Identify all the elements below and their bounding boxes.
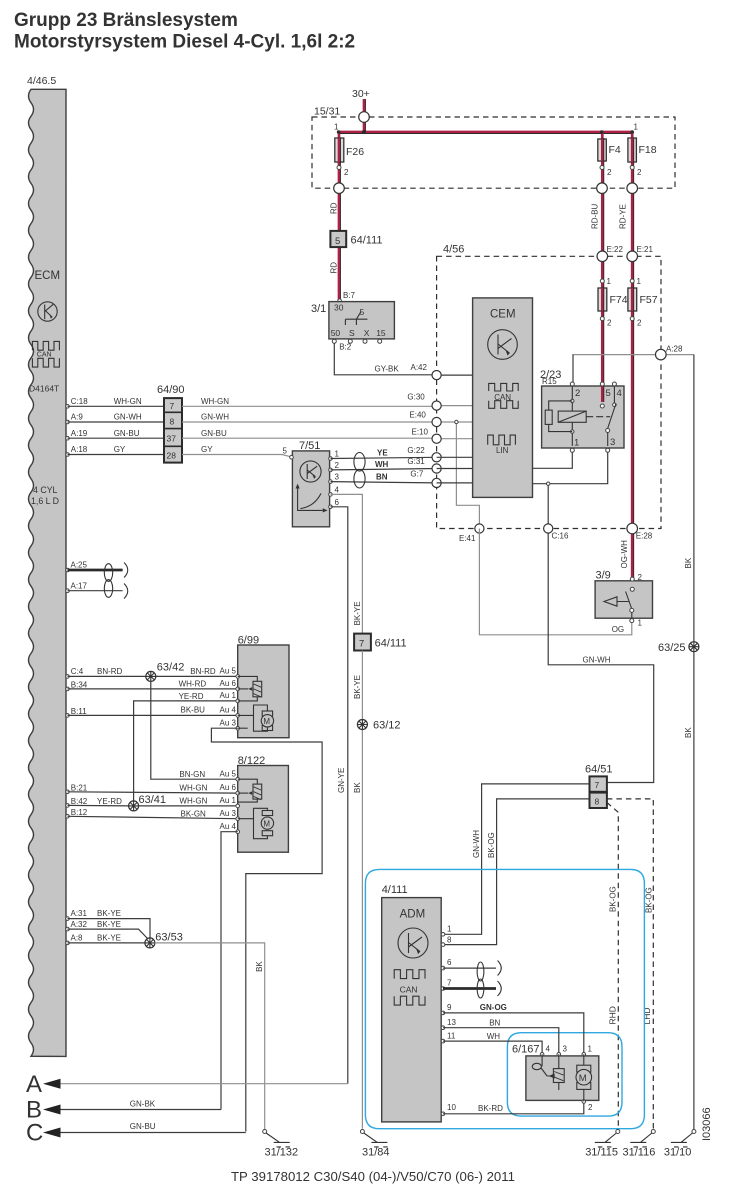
node circle F26 on 15/31 bottom edge xyxy=(334,183,345,194)
ADM transistor symbol xyxy=(398,928,428,958)
ADM CAN symbol xyxy=(394,970,425,1005)
fuse F57 xyxy=(628,288,658,311)
svg-text:C:18: C:18 xyxy=(71,397,88,406)
connector 64/111 pin 7 xyxy=(354,634,407,651)
svg-text:1: 1 xyxy=(638,619,643,628)
svg-text:1: 1 xyxy=(334,123,339,132)
svg-text:1: 1 xyxy=(607,277,612,286)
wire BN pin3 to G:7 xyxy=(331,482,437,483)
svg-text:64/51: 64/51 xyxy=(585,764,613,776)
pin 1 of 3/9 xyxy=(630,619,634,623)
splice 63/25 xyxy=(658,642,699,654)
svg-text:5: 5 xyxy=(283,446,288,455)
wire BK from 63/53 to ground 31/132 xyxy=(155,943,265,1129)
fuse F18 xyxy=(628,138,657,162)
7/51 transistor symbol xyxy=(300,461,321,482)
pin 2 of F4 xyxy=(600,166,604,170)
svg-text:RD: RD xyxy=(330,262,339,274)
6/167 sender symbol xyxy=(532,1054,554,1077)
wire A:17 xyxy=(68,590,123,592)
svg-text:50: 50 xyxy=(331,328,341,338)
svg-text:TP 39178012 C30/S40 (04-)/V50/: TP 39178012 C30/S40 (04-)/V50/C70 (06-) … xyxy=(231,1169,515,1184)
wire BN-GN from splice 63/42 down xyxy=(151,681,238,779)
svg-text:LHD: LHD xyxy=(642,1007,652,1024)
svg-text:BK: BK xyxy=(353,782,362,793)
svg-text:31/115: 31/115 xyxy=(585,1147,618,1159)
svg-text:BK-YE: BK-YE xyxy=(353,675,362,699)
pin 1 of F74 xyxy=(600,279,604,283)
wire relay pin 2 to A:28 xyxy=(572,355,574,382)
svg-text:31/132: 31/132 xyxy=(265,1147,299,1159)
splice 63/41 xyxy=(129,794,166,811)
svg-text:GY-BK: GY-BK xyxy=(375,365,400,374)
svg-text:B:34: B:34 xyxy=(71,681,88,690)
ground 31/10 xyxy=(664,1130,696,1159)
svg-text:2: 2 xyxy=(607,319,612,328)
svg-text:ADM: ADM xyxy=(400,909,426,921)
fuse F26 xyxy=(335,138,364,162)
wire GN-WH to E:40 xyxy=(182,421,473,423)
svg-text:1,6 L D: 1,6 L D xyxy=(31,496,59,506)
svg-text:7: 7 xyxy=(359,639,364,650)
wire 30+ feed xyxy=(363,99,366,132)
ground 31/116 xyxy=(623,1130,656,1159)
wire CEM to relay pin 3 and C:16 branch xyxy=(533,452,608,484)
relay 2/23 body xyxy=(540,369,624,449)
6/99 heater resistor with control arrow xyxy=(238,676,262,700)
svg-text:S: S xyxy=(349,328,355,338)
wire WH-GN xyxy=(68,792,238,793)
wire GN-BU xyxy=(68,437,165,439)
3/9 plunger symbol xyxy=(604,597,629,606)
svg-text:BK: BK xyxy=(255,961,264,972)
svg-text:2: 2 xyxy=(335,461,340,470)
svg-text:15: 15 xyxy=(376,328,386,338)
svg-text:28: 28 xyxy=(167,451,177,461)
wire WH pin11 to 6/167 pin4 xyxy=(443,1041,542,1053)
svg-text:E:10: E:10 xyxy=(412,428,429,437)
wire GN-WH xyxy=(68,421,165,423)
svg-text:WH-GN: WH-GN xyxy=(201,397,229,406)
svg-text:E:40: E:40 xyxy=(409,411,426,420)
svg-text:A:8: A:8 xyxy=(71,934,84,943)
wire GY to 7/51 pin 5 xyxy=(182,455,292,458)
8/122 heater resistor with control arrow xyxy=(238,779,262,802)
node A:28 xyxy=(656,349,667,360)
pin A:32 xyxy=(66,927,70,931)
svg-text:2: 2 xyxy=(575,388,580,399)
svg-text:8: 8 xyxy=(170,417,175,427)
svg-text:B:12: B:12 xyxy=(71,808,88,817)
svg-text:Au 6: Au 6 xyxy=(220,783,237,792)
svg-text:Au 1: Au 1 xyxy=(220,691,237,700)
svg-text:GN-BU: GN-BU xyxy=(201,429,227,438)
svg-text:A:31: A:31 xyxy=(71,909,88,918)
dashed BK-OG LHD variant from 64/51 pin8 xyxy=(607,799,653,1129)
variant frame blue outer box xyxy=(365,869,644,1128)
svg-text:13: 13 xyxy=(447,1018,456,1027)
svg-text:BK-YE: BK-YE xyxy=(97,934,121,943)
wire 6/99 Au3 route to C arrow xyxy=(211,728,322,1131)
pin A:31 xyxy=(66,917,70,921)
wire BK-YE below 64/111 xyxy=(361,651,363,1129)
svg-text:BK-OG: BK-OG xyxy=(645,887,654,913)
node E:41 xyxy=(475,524,484,533)
svg-text:C:4: C:4 xyxy=(71,667,84,676)
svg-text:WH: WH xyxy=(375,460,389,469)
svg-text:64/111: 64/111 xyxy=(375,638,407,650)
svg-text:M: M xyxy=(263,819,270,828)
wire GN-BU to E:10 xyxy=(182,437,473,440)
fuse F74 xyxy=(598,288,628,311)
node E:22 xyxy=(597,251,608,262)
svg-text:31/116: 31/116 xyxy=(623,1147,656,1159)
node circle F18 on 15/31 bottom edge xyxy=(627,183,638,194)
8/122 body xyxy=(238,755,289,852)
svg-text:64/111: 64/111 xyxy=(351,235,383,247)
pin A:9 xyxy=(66,420,70,424)
twisted pair symbol A:25/A:17 xyxy=(104,564,112,598)
relay pins top xyxy=(570,382,574,386)
svg-text:2: 2 xyxy=(637,168,642,177)
svg-text:A:19: A:19 xyxy=(71,429,88,438)
svg-text:BK-YE: BK-YE xyxy=(353,601,362,625)
svg-text:X: X xyxy=(364,328,370,338)
svg-text:WH: WH xyxy=(487,1032,501,1041)
svg-text:GN-BU: GN-BU xyxy=(130,1122,156,1131)
svg-text:B:2: B:2 xyxy=(339,343,352,352)
svg-text:G:31: G:31 xyxy=(407,457,425,466)
svg-text:BK-YE: BK-YE xyxy=(97,909,121,918)
svg-text:1: 1 xyxy=(447,925,452,934)
svg-text:OG: OG xyxy=(612,625,624,634)
fuse box 15/31 dashed boundary xyxy=(312,106,675,189)
ADM pins xyxy=(441,933,445,937)
svg-text:63/41: 63/41 xyxy=(139,794,167,806)
pin 2 of 3/9 xyxy=(630,577,634,581)
junction F18 pin1 xyxy=(630,130,634,134)
wire WH pin2 to G:31 xyxy=(331,469,437,470)
svg-text:Au 3: Au 3 xyxy=(220,809,237,818)
svg-text:BN: BN xyxy=(489,1019,500,1028)
svg-text:30+: 30+ xyxy=(352,88,370,100)
twisted pair symbol ADM xyxy=(477,962,484,998)
svg-text:BN: BN xyxy=(376,473,388,482)
svg-text:BK-OG: BK-OG xyxy=(609,886,618,912)
svg-text:GN-WH: GN-WH xyxy=(114,413,142,422)
pin 2 of F26 xyxy=(337,166,341,170)
svg-text:Grupp 23 Bränslesystem: Grupp 23 Bränslesystem xyxy=(14,10,238,31)
dashed BK-OG RHD variant from 64/51 pin8 xyxy=(607,803,618,1130)
3/9 body xyxy=(595,570,652,619)
wire GN-OG pin9 to 6/167 pin1 xyxy=(443,1013,584,1053)
wire WH-RD xyxy=(68,688,238,690)
svg-text:2: 2 xyxy=(344,168,349,177)
svg-text:Au 4: Au 4 xyxy=(220,706,237,715)
svg-text:1: 1 xyxy=(637,277,642,286)
svg-text:7: 7 xyxy=(447,979,452,988)
pin A:19 xyxy=(66,436,70,440)
svg-text:F74: F74 xyxy=(610,294,628,306)
svg-text:3: 3 xyxy=(335,473,340,482)
splice 63/12 xyxy=(357,720,400,732)
svg-text:2: 2 xyxy=(637,319,642,328)
svg-text:A:25: A:25 xyxy=(71,561,88,570)
wire GN-WH xyxy=(548,533,654,782)
CEM module box xyxy=(473,298,533,498)
svg-text:5: 5 xyxy=(335,236,340,247)
svg-text:BK-BU: BK-BU xyxy=(181,705,206,714)
svg-text:WH-GN: WH-GN xyxy=(179,797,207,806)
continuation arcs ADM pair xyxy=(498,961,502,997)
svg-text:7: 7 xyxy=(170,401,175,411)
svg-text:CEM: CEM xyxy=(490,309,516,321)
svg-text:GN-OG: GN-OG xyxy=(480,1003,507,1012)
svg-text:3: 3 xyxy=(563,1045,568,1054)
svg-text:Au 4: Au 4 xyxy=(220,822,237,831)
svg-text:6: 6 xyxy=(335,498,340,507)
svg-text:GN-WH: GN-WH xyxy=(472,830,481,858)
svg-text:GN-WH: GN-WH xyxy=(583,656,611,665)
wire 64/51 pin8 to ADM pin8 xyxy=(443,799,589,945)
node C:16 xyxy=(544,524,553,533)
svg-text:Au 6: Au 6 xyxy=(220,679,237,688)
continuation arcs xyxy=(124,563,128,599)
svg-text:B:11: B:11 xyxy=(71,707,87,716)
wire BN pin13 to 6/167 pin3 xyxy=(443,1028,559,1053)
svg-text:63/25: 63/25 xyxy=(658,642,686,654)
svg-text:WH-GN: WH-GN xyxy=(179,784,207,793)
svg-text:3/1: 3/1 xyxy=(311,303,326,315)
svg-text:B:42: B:42 xyxy=(71,797,88,806)
svg-text:RD: RD xyxy=(330,202,339,214)
CEM LIN symbol xyxy=(488,435,516,455)
svg-text:63/42: 63/42 xyxy=(157,662,185,674)
svg-text:5: 5 xyxy=(606,388,611,399)
ground 31/132 xyxy=(263,1130,298,1159)
pin B:11 xyxy=(66,714,70,718)
wire YE-RD to splice 63/41 xyxy=(68,804,238,807)
svg-text:YE-RD: YE-RD xyxy=(97,797,122,806)
wire from 7/51 pin 4 (BK-YE) down xyxy=(331,494,363,633)
svg-text:E:22: E:22 xyxy=(607,245,624,254)
wire F26 column (RD) xyxy=(338,132,341,301)
svg-text:3/9: 3/9 xyxy=(596,570,611,582)
svg-text:ECM: ECM xyxy=(35,270,61,282)
relay switch internals xyxy=(600,386,616,446)
ADM module 4/111 xyxy=(382,884,442,1122)
svg-text:37: 37 xyxy=(167,434,177,444)
fuse F4 xyxy=(598,139,621,161)
7/51 characteristic-curve symbol xyxy=(296,484,328,513)
wire F18 column (RD) xyxy=(631,132,634,579)
node circle F4 on 15/31 bottom edge xyxy=(597,183,608,194)
wire YE pin1 to G:22 xyxy=(331,457,437,458)
svg-text:F26: F26 xyxy=(346,146,364,158)
connector 64/90 xyxy=(157,384,185,463)
svg-text:E:21: E:21 xyxy=(637,245,654,254)
node circle on 15/31 top edge xyxy=(359,112,370,123)
svg-text:BK-GN: BK-GN xyxy=(181,810,207,819)
svg-text:1: 1 xyxy=(588,1045,593,1054)
svg-text:BK-YE: BK-YE xyxy=(97,920,121,929)
svg-text:A: A xyxy=(26,1071,42,1098)
pin A:17 xyxy=(66,589,70,593)
relay coil and resistor internals xyxy=(545,386,610,446)
svg-text:RHD: RHD xyxy=(608,1006,618,1024)
ECM transistor symbol xyxy=(38,302,57,321)
svg-text:GN-BK: GN-BK xyxy=(130,1100,156,1109)
wire from 7/51 pin 6 (GN-YE) down xyxy=(331,507,348,1084)
svg-text:4/56: 4/56 xyxy=(443,244,464,256)
svg-text:GY: GY xyxy=(201,445,213,454)
pin B:12 xyxy=(66,815,70,819)
svg-text:9: 9 xyxy=(447,1003,452,1012)
svg-text:2: 2 xyxy=(638,573,643,582)
wire F4 column (RD) xyxy=(601,132,604,406)
variant frame blue inner box 6/167 xyxy=(507,1033,622,1116)
svg-text:RD-YE: RD-YE xyxy=(619,204,628,229)
splice 63/42 xyxy=(146,662,185,682)
svg-text:BK-RD: BK-RD xyxy=(478,1104,503,1113)
svg-text:3: 3 xyxy=(610,437,615,448)
junction 30+ bus xyxy=(362,130,366,134)
svg-text:31/84: 31/84 xyxy=(362,1147,390,1159)
svg-text:I03066: I03066 xyxy=(701,1107,713,1141)
ECM CAN symbol xyxy=(32,341,59,367)
wire YE-RD from splice 63/41 up xyxy=(134,701,238,806)
svg-text:A:17: A:17 xyxy=(71,581,88,590)
svg-text:63/12: 63/12 xyxy=(373,720,401,732)
svg-text:M: M xyxy=(263,717,270,726)
svg-text:CAN: CAN xyxy=(400,985,418,995)
svg-text:G:7: G:7 xyxy=(410,470,423,479)
svg-text:E:41: E:41 xyxy=(459,534,476,543)
3/9 switch internals xyxy=(626,587,635,618)
svg-text:2: 2 xyxy=(607,168,612,177)
wire A:32 to splice xyxy=(68,929,150,941)
svg-text:2: 2 xyxy=(588,1103,593,1112)
svg-text:M: M xyxy=(579,1073,587,1084)
connector 64/111 pin 5 xyxy=(330,231,382,247)
svg-text:GN-BU: GN-BU xyxy=(114,429,140,438)
6/99 pins xyxy=(236,675,240,679)
svg-text:4: 4 xyxy=(335,486,340,495)
wire A:8 to splice xyxy=(68,942,150,944)
svg-text:R15: R15 xyxy=(542,377,557,386)
ADM CAN pair pin 6 xyxy=(443,967,496,969)
svg-text:GN-WH: GN-WH xyxy=(201,413,229,422)
svg-text:C: C xyxy=(26,1120,43,1147)
wire A:28 gray link xyxy=(572,354,694,356)
svg-text:6/167: 6/167 xyxy=(512,1044,540,1056)
pin B:21 xyxy=(66,790,70,794)
pin B:42 xyxy=(66,804,70,808)
connector box 4/56 dashed boundary xyxy=(437,244,661,529)
svg-text:A:32: A:32 xyxy=(71,920,88,929)
node E:21 xyxy=(627,251,638,262)
svg-text:CAN: CAN xyxy=(37,352,52,359)
svg-text:4/46.5: 4/46.5 xyxy=(27,75,56,87)
svg-text:1: 1 xyxy=(574,438,579,449)
svg-text:BK-OG: BK-OG xyxy=(487,832,496,858)
svg-text:YE-RD: YE-RD xyxy=(179,692,204,701)
ADM CAN pair pin 7 thick xyxy=(443,987,496,990)
svg-text:RD-BU: RD-BU xyxy=(591,203,600,229)
svg-text:BK: BK xyxy=(684,557,693,568)
wire 8/122 Au4 to B arrow xyxy=(221,832,238,1110)
svg-text:8: 8 xyxy=(595,797,600,807)
svg-text:BK: BK xyxy=(684,727,693,738)
svg-text:WH-RD: WH-RD xyxy=(179,680,207,689)
svg-text:B:7: B:7 xyxy=(343,291,356,300)
svg-text:30: 30 xyxy=(334,303,344,313)
svg-text:4 CYL: 4 CYL xyxy=(33,485,58,495)
svg-text:Au 1: Au 1 xyxy=(220,796,237,805)
svg-text:A:28: A:28 xyxy=(666,345,683,354)
ground 31/84 xyxy=(360,1130,389,1159)
6/99 body xyxy=(238,635,289,738)
pin A:18 xyxy=(66,453,70,457)
wire A:31 to splice xyxy=(68,919,151,938)
junction F4 pin1 xyxy=(600,130,604,134)
twisted pair symbol on YE/WH/BN xyxy=(354,453,365,489)
svg-text:31/10: 31/10 xyxy=(664,1147,692,1159)
svg-text:4: 4 xyxy=(546,1045,551,1054)
pin B:34 xyxy=(66,687,70,691)
wire WH-GN to G:30 xyxy=(182,405,473,408)
wire BK-BU xyxy=(68,714,238,716)
svg-text:1: 1 xyxy=(634,123,639,132)
8/122 pins xyxy=(236,777,240,781)
svg-text:A:18: A:18 xyxy=(71,445,88,454)
svg-text:OG-WH: OG-WH xyxy=(620,540,629,569)
CEM transistor symbol xyxy=(488,330,518,360)
wire WH-GN xyxy=(68,405,165,407)
svg-text:C:16: C:16 xyxy=(552,532,569,541)
svg-text:63/53: 63/53 xyxy=(155,932,183,944)
pin 2 of F74 xyxy=(600,317,604,321)
svg-text:F57: F57 xyxy=(640,294,658,306)
wire BK continues to ground 31/10 xyxy=(693,651,695,1129)
wire BK-RD pin10 to 6/167 pin2 xyxy=(443,1103,584,1114)
svg-text:E:28: E:28 xyxy=(636,532,653,541)
pin 2 of F57 xyxy=(630,317,634,321)
junction F26 pin1 xyxy=(337,130,341,134)
wire GY-BK from 3/1 pin 50 to A:42 xyxy=(334,343,436,375)
6/99 pump motor xyxy=(238,705,274,731)
svg-text:64/90: 64/90 xyxy=(157,384,185,396)
svg-text:1: 1 xyxy=(335,450,340,459)
6/167 valve/resistor symbol xyxy=(553,1054,564,1090)
svg-text:B:21: B:21 xyxy=(71,783,88,792)
svg-text:GN-YE: GN-YE xyxy=(337,768,346,793)
wire red bus xyxy=(339,131,633,134)
svg-text:LIN: LIN xyxy=(496,446,509,455)
svg-text:8: 8 xyxy=(447,936,452,945)
6/167 fuel pump motor xyxy=(576,1054,592,1101)
svg-text:D4164T: D4164T xyxy=(29,384,59,394)
svg-text:WH-GN: WH-GN xyxy=(114,397,142,406)
pin C:18 xyxy=(66,405,70,409)
wire A:42 into CEM xyxy=(437,374,473,376)
CEM CAN symbol xyxy=(489,383,519,408)
svg-text:BN-GN: BN-GN xyxy=(179,770,205,779)
ground 31/115 xyxy=(585,1130,620,1159)
svg-text:Motorstyrsystem Diesel 4-Cyl.: Motorstyrsystem Diesel 4-Cyl. 1,6l 2:2 xyxy=(14,32,355,53)
relay pins bottom xyxy=(570,448,574,452)
svg-text:CAN: CAN xyxy=(494,393,511,402)
